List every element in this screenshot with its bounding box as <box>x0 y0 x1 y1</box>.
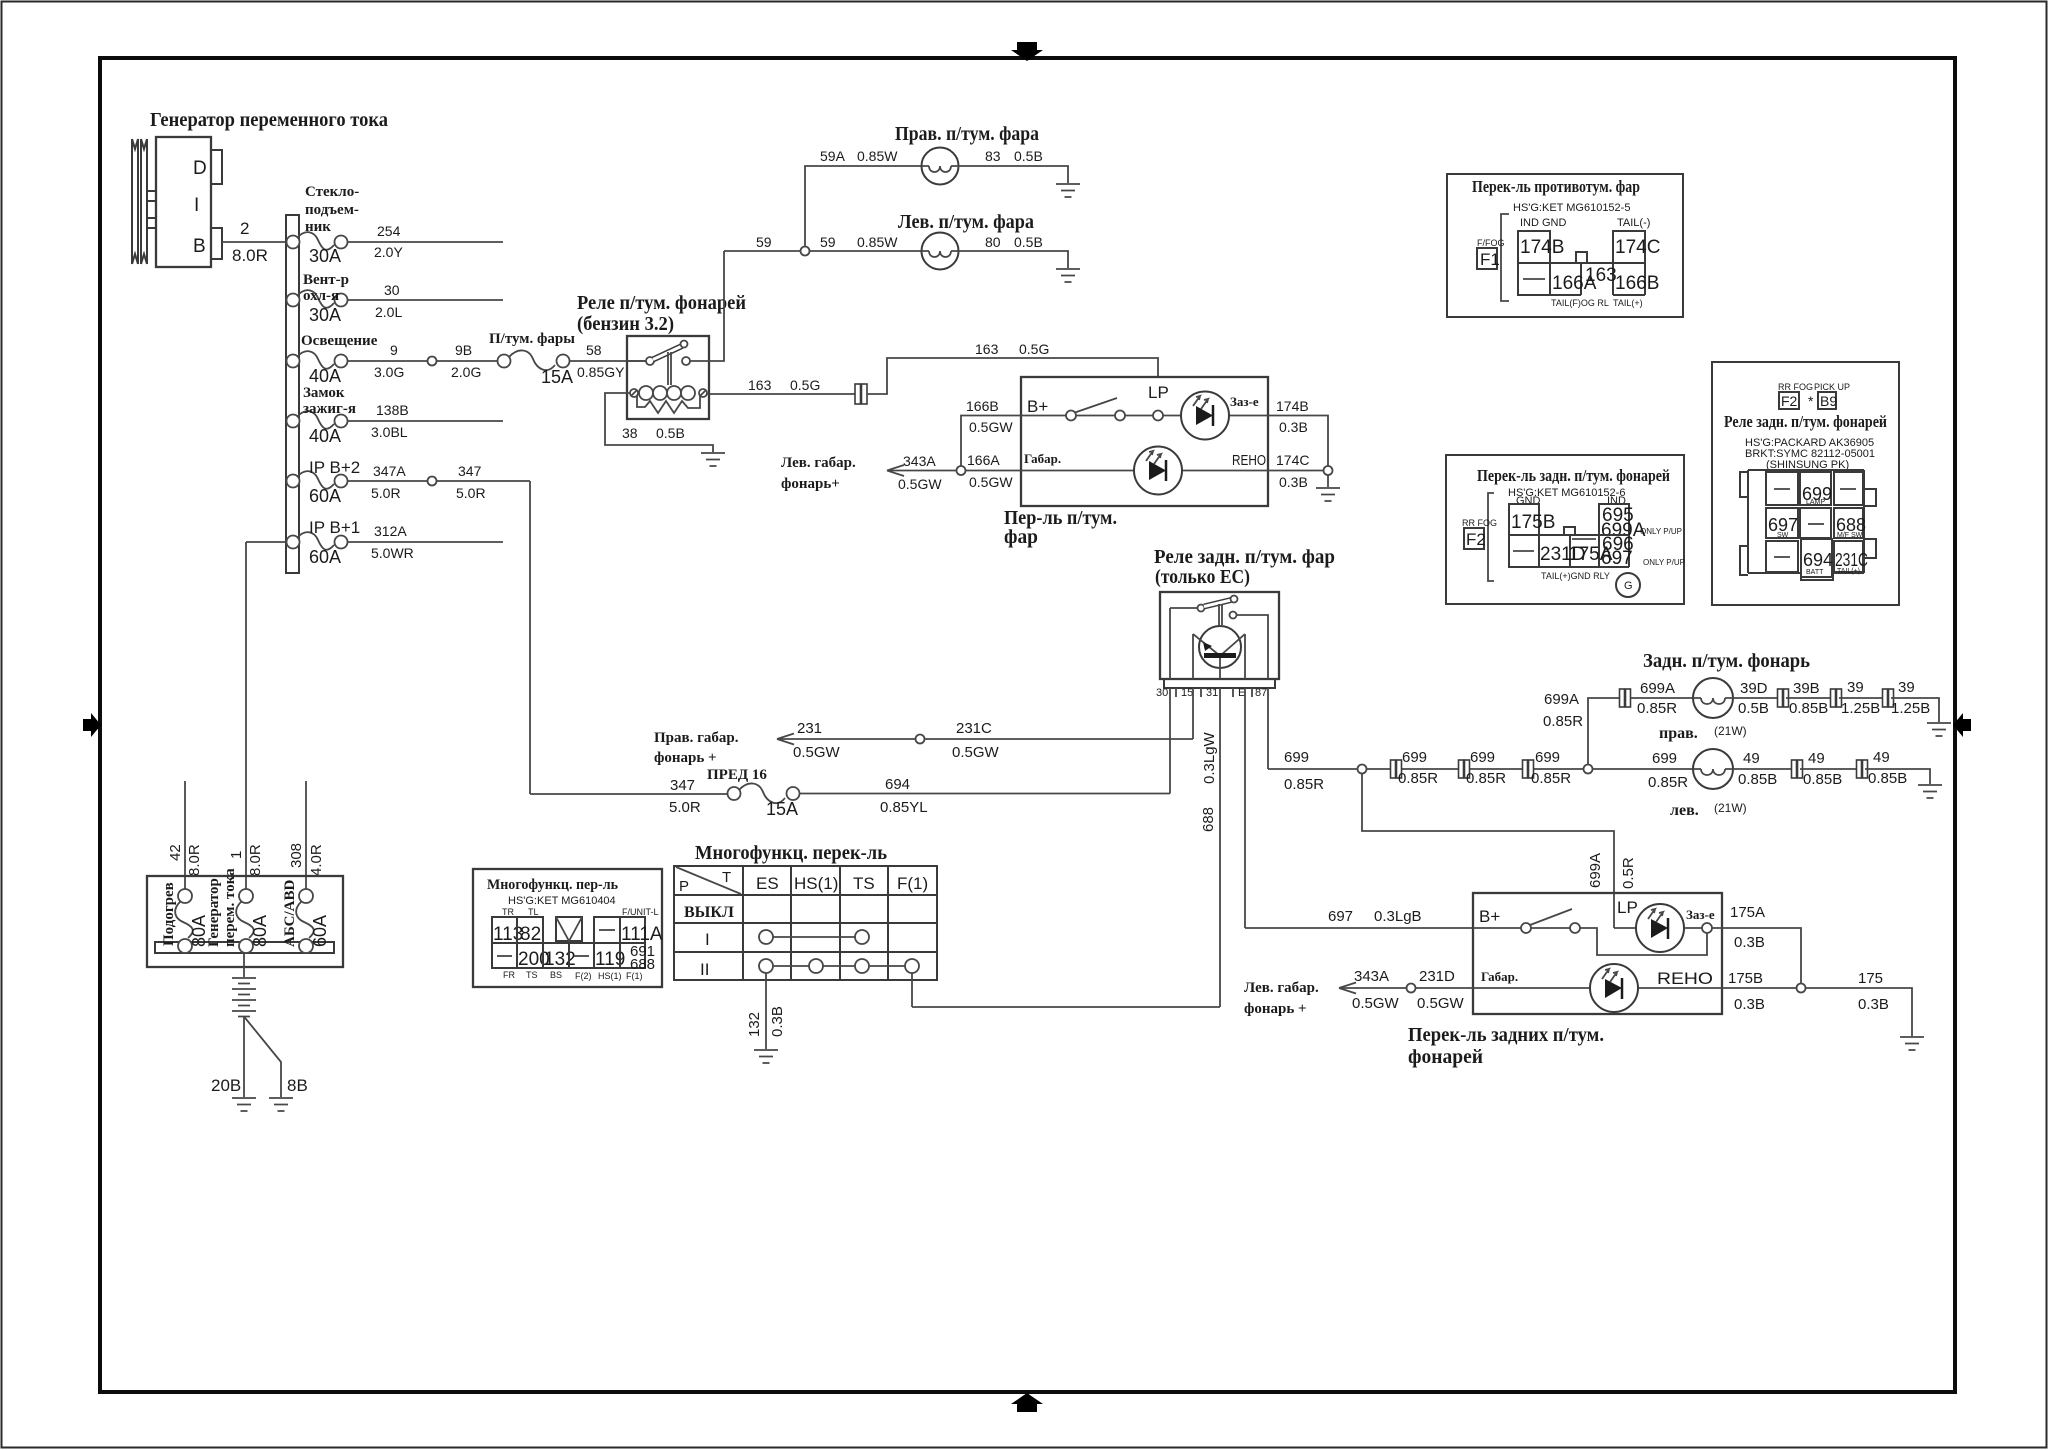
svg-text:2.0Y: 2.0Y <box>374 244 403 260</box>
svg-text:LP: LP <box>1148 383 1169 402</box>
svg-text:31: 31 <box>1206 687 1218 699</box>
wire 699A 0.85R to right rear fog lamp <box>1631 680 1693 717</box>
svg-text:TAIL(F)OG RL: TAIL(F)OG RL <box>1551 298 1609 308</box>
svg-text:699A: 699A <box>1544 691 1579 708</box>
connector F2 pin 175B <box>1509 504 1555 535</box>
svg-text:Заз-е: Заз-е <box>1230 394 1259 409</box>
connector B9 F2 ref box <box>1779 392 1799 409</box>
svg-text:0.85B: 0.85B <box>1789 700 1828 717</box>
svg-text:ONLY P/UP: ONLY P/UP <box>1643 558 1685 567</box>
ground right fog lamp <box>1056 184 1080 197</box>
svg-text:подъем-: подъем- <box>305 202 359 218</box>
svg-text:175A: 175A <box>1730 904 1765 921</box>
svg-text:49: 49 <box>1743 750 1760 767</box>
fuse F-IP B+1 60A <box>287 518 361 567</box>
svg-text:0.5B: 0.5B <box>1738 700 1769 717</box>
svg-text:M/F SW: M/F SW <box>1837 532 1863 539</box>
page link arrow right <box>1953 713 1971 737</box>
ground left rear fog <box>1918 785 1942 798</box>
svg-text:8В: 8В <box>287 1076 308 1095</box>
svg-text:175B: 175B <box>1728 970 1763 987</box>
svg-text:694: 694 <box>885 776 910 793</box>
lower fuse bus bar <box>155 942 334 953</box>
node junction 175A/175B <box>1797 984 1806 993</box>
svg-text:фар: фар <box>1004 526 1038 548</box>
svg-text:0.85B: 0.85B <box>1868 770 1907 787</box>
svg-text:5.0WR: 5.0WR <box>371 545 414 561</box>
svg-text:2.0L: 2.0L <box>375 304 402 320</box>
connector F1 pin 174C <box>1613 231 1660 263</box>
svg-text:163: 163 <box>975 341 999 357</box>
connector F1 box Перек-ль противотум. фар <box>1447 174 1683 317</box>
svg-text:5.0R: 5.0R <box>371 485 401 501</box>
svg-text:TAIL(+): TAIL(+) <box>1837 568 1860 575</box>
wire 39D 0.5B <box>1733 680 1780 717</box>
svg-text:Заз-е: Заз-е <box>1686 907 1715 922</box>
fuse F-Вентилятор охлаждения 30A <box>287 272 350 325</box>
svg-text:Реле п/тум. фонарей: Реле п/тум. фонарей <box>577 292 746 314</box>
switch S1 pin LP <box>1148 383 1169 421</box>
svg-text:F/FOG: F/FOG <box>1477 238 1505 248</box>
relay K1 resistor <box>637 396 700 413</box>
svg-text:163: 163 <box>748 377 772 393</box>
wire pin30 down to 694 <box>1169 688 1171 794</box>
svg-text:39B: 39B <box>1793 680 1820 697</box>
connector B9 cell r3c1 <box>1766 541 1798 572</box>
wire 231D 0.5GW <box>1416 968 1474 1012</box>
svg-text:60А: 60А <box>309 486 341 506</box>
svg-text:фонарь+: фонарь+ <box>781 476 840 492</box>
connector inline 39/39 <box>1883 689 1894 707</box>
svg-text:39: 39 <box>1898 679 1915 696</box>
battery BAT <box>232 953 256 1017</box>
svg-text:59: 59 <box>820 234 836 250</box>
svg-text:111A: 111A <box>621 924 663 945</box>
svg-text:0.5R: 0.5R <box>1620 857 1637 889</box>
connector X1 bottom row cells <box>492 943 655 973</box>
svg-text:9B: 9B <box>455 342 472 358</box>
svg-text:F/UNIT-L: F/UNIT-L <box>622 907 659 917</box>
svg-text:Перек-ль задних п/тум.: Перек-ль задних п/тум. <box>1408 1024 1604 1046</box>
svg-text:TS: TS <box>853 874 875 893</box>
svg-text:ONLY P/UP: ONLY P/UP <box>1640 527 1682 536</box>
wire 175A 0.3B <box>1712 904 1801 984</box>
wire 254 2.0Y <box>348 223 503 260</box>
svg-text:Замок: Замок <box>303 385 345 401</box>
svg-text:15А: 15А <box>766 799 798 819</box>
relay K2 box <box>1160 592 1279 679</box>
svg-text:254: 254 <box>377 223 401 239</box>
wire 175B 0.3B <box>1722 970 1797 1013</box>
svg-text:B+: B+ <box>1479 907 1500 926</box>
svg-text:49: 49 <box>1873 749 1890 766</box>
wire 39 1.25B end <box>1891 679 1939 722</box>
svg-text:Лев. габар.: Лев. габар. <box>781 455 856 471</box>
ground for 174C <box>1327 475 1329 487</box>
wire 49 0.85B second <box>1800 750 1859 788</box>
wire 138B 3.0BL <box>348 402 503 440</box>
svg-text:0.3B: 0.3B <box>1734 934 1765 951</box>
wire 347 vertical run <box>529 481 531 794</box>
svg-text:P: P <box>679 878 689 895</box>
table row I contacts <box>705 930 869 949</box>
svg-text:Лев. габар.: Лев. габар. <box>1244 980 1319 996</box>
wire 163 0.5G riser to switch LP <box>867 341 1158 394</box>
node junction 231/231C <box>916 735 925 744</box>
svg-text:0.85R: 0.85R <box>1637 700 1677 717</box>
generator terminal B <box>211 228 222 259</box>
connector F1 designator <box>1477 238 1505 269</box>
wire 174B 0.3B <box>1268 398 1328 466</box>
fuse bus bar <box>286 215 299 573</box>
connector B9 pin 699 LAMP <box>1800 472 1832 506</box>
svg-text:0.5B: 0.5B <box>1014 148 1043 164</box>
svg-text:АБС/ABD: АБС/ABD <box>282 880 298 947</box>
svg-text:175: 175 <box>1858 970 1883 987</box>
connector F1 key lug <box>1576 252 1587 263</box>
svg-text:60А: 60А <box>309 547 341 567</box>
svg-text:82: 82 <box>520 924 541 945</box>
wire 312A 5.0WR <box>246 523 503 561</box>
svg-text:F(1): F(1) <box>626 971 643 981</box>
wire 231D feed with arrow <box>1339 968 1407 1012</box>
svg-text:1.25B: 1.25B <box>1841 700 1880 717</box>
wire 688 0.3LgW pin31 down <box>1200 688 1220 1007</box>
svg-text:0.3LgB: 0.3LgB <box>1374 908 1422 925</box>
svg-text:IP B+2: IP B+2 <box>309 458 360 477</box>
svg-text:0.5G: 0.5G <box>1019 341 1049 357</box>
svg-text:0.3B: 0.3B <box>1279 474 1308 490</box>
svg-text:Стекло-: Стекло- <box>305 184 359 200</box>
svg-text:лев.: лев. <box>1670 802 1699 819</box>
wire 38 0.5B to ground <box>605 393 713 452</box>
connector B9 header labels <box>1778 382 1850 392</box>
svg-text:Генератор: Генератор <box>206 878 222 947</box>
transistor Q1 in relay K2 <box>1170 608 1245 679</box>
table header labels <box>679 869 928 895</box>
svg-text:132: 132 <box>746 1012 763 1037</box>
svg-text:IND GND: IND GND <box>1520 217 1567 229</box>
wire 83 0.5B <box>959 148 1069 183</box>
connector F2 ground G circle <box>1616 573 1640 597</box>
svg-text:699A: 699A <box>1587 853 1604 888</box>
svg-text:3.0G: 3.0G <box>374 364 404 380</box>
wire 231 0.5GW with arrow <box>777 720 916 761</box>
node junction 166A/166B <box>957 466 966 475</box>
svg-text:9: 9 <box>390 342 398 358</box>
connector B9 B9 ref box <box>1818 392 1837 409</box>
node junction 347A/347 <box>428 477 437 486</box>
svg-text:699: 699 <box>1470 749 1495 766</box>
svg-text:8.0R: 8.0R <box>247 844 264 876</box>
wire 694 0.85YL <box>800 776 1171 816</box>
ground for 175 <box>1900 1037 1924 1050</box>
switch S2 Габар row <box>1473 964 1722 1012</box>
svg-text:RR FOG: RR FOG <box>1778 382 1813 392</box>
svg-text:BATT: BATT <box>1806 569 1824 576</box>
wire 347 5.0R horizontal <box>437 463 531 501</box>
svg-text:0.3LgW: 0.3LgW <box>1201 731 1218 784</box>
connector X1 pin 82 <box>517 917 543 945</box>
connector B9 box Реле задн. п/тум. фонарей <box>1712 362 1899 605</box>
svg-text:F(2): F(2) <box>575 971 592 981</box>
svg-text:697: 697 <box>1601 548 1633 569</box>
svg-text:ES: ES <box>756 874 779 893</box>
svg-text:0.85R: 0.85R <box>1648 774 1688 791</box>
svg-text:688: 688 <box>1200 807 1217 832</box>
svg-text:фонарь +: фонарь + <box>654 750 717 766</box>
svg-text:231D: 231D <box>1419 968 1455 985</box>
svg-text:прав.: прав. <box>1659 725 1698 742</box>
wire 163 0.5G from relay to connector <box>707 377 855 394</box>
svg-text:FR: FR <box>503 970 515 980</box>
svg-text:Подогрев: Подогрев <box>161 882 177 946</box>
relay K2 connector strip <box>1164 679 1275 697</box>
svg-text:138B: 138B <box>376 402 409 418</box>
svg-text:166A: 166A <box>967 452 1000 468</box>
fuse F-Замок зажигания 40A <box>287 385 356 446</box>
svg-text:59: 59 <box>756 234 772 250</box>
wire 699 0.85R from pin 87 <box>1268 749 1358 793</box>
svg-text:IP B+1: IP B+1 <box>309 518 360 537</box>
svg-text:F2: F2 <box>1466 530 1486 549</box>
svg-text:699A: 699A <box>1640 680 1675 697</box>
svg-text:0.3B: 0.3B <box>1279 419 1308 435</box>
relay K2 switch lever <box>1170 596 1268 680</box>
connector F2 pin IND cell <box>1599 504 1646 541</box>
svg-text:699: 699 <box>1652 750 1677 767</box>
svg-text:HS(1): HS(1) <box>598 971 622 981</box>
svg-text:0.5GW: 0.5GW <box>969 419 1013 435</box>
wire 9B 2.0G <box>437 342 498 380</box>
lamp L4 left rear fog 21W <box>1670 749 1747 819</box>
svg-text:LP: LP <box>1617 898 1638 917</box>
svg-text:Вент-р: Вент-р <box>303 272 349 288</box>
svg-text:F1: F1 <box>1480 250 1500 269</box>
connector B9 housing outline <box>1740 470 1876 580</box>
svg-text:HS(1): HS(1) <box>794 874 838 893</box>
svg-text:Перек-ль задн. п/тум. фонарей: Перек-ль задн. п/тум. фонарей <box>1477 466 1670 485</box>
svg-text:0.85GY: 0.85GY <box>577 364 625 380</box>
connector F2 ONLY P/UP labels <box>1640 527 1685 567</box>
svg-text:Генератор переменного тока: Генератор переменного тока <box>150 109 388 131</box>
svg-text:2.0G: 2.0G <box>451 364 481 380</box>
svg-text:231C: 231C <box>1835 550 1868 570</box>
connector F2 bottom cells <box>1509 534 1634 569</box>
wire 42 8.0R stub <box>167 781 203 889</box>
node junction 9/9B <box>428 357 437 366</box>
svg-text:39D: 39D <box>1740 680 1768 697</box>
svg-text:15: 15 <box>1181 687 1193 699</box>
svg-text:зажиг-я: зажиг-я <box>303 401 356 417</box>
svg-text:166B: 166B <box>1615 273 1659 294</box>
wire 166B 0.5GW <box>961 398 1021 466</box>
connector B9 pin 688 M/F SW <box>1834 508 1866 539</box>
wire 347A 5.0R <box>348 463 428 501</box>
svg-text:0.85W: 0.85W <box>857 234 898 250</box>
wire battery to ground 8B <box>244 1017 308 1098</box>
connector B9 cell r1c1 <box>1766 472 1798 505</box>
svg-text:49: 49 <box>1808 750 1825 767</box>
svg-text:0.5GW: 0.5GW <box>793 744 841 761</box>
wire 39 1.25B <box>1839 679 1885 717</box>
svg-text:5.0R: 5.0R <box>456 485 486 501</box>
svg-text:TAIL(-): TAIL(-) <box>1617 217 1650 229</box>
svg-text:Задн. п/тум. фонарь: Задн. п/тум. фонарь <box>1643 650 1810 672</box>
wire 80 0.5B <box>959 234 1069 268</box>
wire 132 0.3B to ground <box>746 973 786 1049</box>
svg-text:0.5GW: 0.5GW <box>952 744 1000 761</box>
connector F2 box Перек-ль задн. п/тум. фонарей <box>1446 455 1684 604</box>
wire 59A 0.85W <box>805 148 922 247</box>
svg-text:фонарей: фонарей <box>1408 1046 1483 1068</box>
switch S1 contacts <box>1021 398 1153 421</box>
svg-text:30А: 30А <box>309 246 341 266</box>
connector B9 pin 694 BATT <box>1801 539 1833 577</box>
wire 231C 0.5GW <box>925 720 1194 761</box>
fuse F-Стеклоподъемник 30A <box>287 184 360 266</box>
connector F1 labels IND GND TAIL(-) <box>1520 217 1650 229</box>
svg-text:T: T <box>722 869 731 886</box>
ground 20B <box>232 1098 256 1111</box>
svg-text:80: 80 <box>985 234 1001 250</box>
wire 688 horizontal to multifunction switch <box>912 1006 1220 1008</box>
wire 308 4.0R stub <box>288 781 325 889</box>
svg-text:Многофункц. перек-ль: Многофункц. перек-ль <box>695 842 887 864</box>
svg-text:163: 163 <box>1585 265 1617 286</box>
svg-text:B: B <box>193 236 206 257</box>
ground 8B <box>269 1098 293 1111</box>
switch S1 Габар row <box>1021 447 1268 495</box>
svg-text:58: 58 <box>586 342 602 358</box>
wire 39B 0.85B <box>1786 680 1833 717</box>
svg-text:(21W): (21W) <box>1714 801 1747 815</box>
switch S2 contacts <box>1473 909 1712 955</box>
svg-text:0.5GW: 0.5GW <box>1417 995 1465 1012</box>
connector X1 key cell <box>556 917 582 941</box>
node junction 699/699A <box>1584 765 1593 774</box>
svg-text:(только ЕС): (только ЕС) <box>1155 566 1250 588</box>
svg-text:113: 113 <box>493 924 523 945</box>
wire 9 3.0G <box>348 342 428 380</box>
connector X1 pin labels top <box>502 907 659 917</box>
svg-text:RR FOG: RR FOG <box>1462 518 1497 528</box>
ground right rear fog <box>1927 723 1951 736</box>
svg-text:40А: 40А <box>309 426 341 446</box>
wire 699 0.85R to left rear fog lamp <box>1593 750 1694 791</box>
wire 2 8.0R from generator B to fuse bus <box>222 241 286 243</box>
svg-text:0.5GW: 0.5GW <box>1352 995 1400 1012</box>
svg-text:ПРЕД 16: ПРЕД 16 <box>707 767 767 783</box>
svg-text:Реле задн. п/тум. фар: Реле задн. п/тум. фар <box>1154 546 1335 568</box>
svg-text:(21W): (21W) <box>1714 724 1747 738</box>
svg-text:0.5B: 0.5B <box>656 425 685 441</box>
svg-text:175B: 175B <box>1511 512 1555 533</box>
node junction 343A/231D <box>1407 984 1416 993</box>
switch S2 pin LP <box>1614 898 1638 928</box>
wire 1 8.0R label <box>228 844 264 876</box>
svg-text:20В: 20В <box>211 1076 241 1095</box>
svg-text:*: * <box>1808 393 1814 409</box>
svg-text:4.0R: 4.0R <box>308 844 325 876</box>
wire 347 5.0R to fuse ПРЕД16 <box>530 777 728 816</box>
label Лев. габар. фонарь + (bottom) <box>1244 980 1319 1017</box>
generator G1 body <box>156 137 211 267</box>
svg-text:174C: 174C <box>1276 452 1309 468</box>
wire 699A 0.85R right chain start <box>1543 691 1619 765</box>
svg-text:II: II <box>700 960 709 979</box>
connector inline 39D/39B <box>1778 689 1789 707</box>
connector X1 pin 111A <box>620 917 663 945</box>
table row II contacts <box>700 959 919 979</box>
connector inline 49 b <box>1857 760 1868 778</box>
svg-text:1: 1 <box>228 851 245 859</box>
relay K1 switch lever <box>627 341 690 386</box>
svg-text:Освещение: Освещение <box>301 333 378 349</box>
svg-text:GND: GND <box>1516 495 1541 507</box>
svg-text:15А: 15А <box>541 367 573 387</box>
svg-text:REHO: REHO <box>1657 969 1713 988</box>
svg-text:Прав. габар.: Прав. габар. <box>654 730 739 746</box>
svg-text:0.85R: 0.85R <box>1543 713 1583 730</box>
svg-text:30А: 30А <box>309 305 341 325</box>
label Прав. габар. фонарь + <box>654 730 739 766</box>
svg-text:38: 38 <box>622 425 638 441</box>
svg-text:0.3B: 0.3B <box>1858 996 1889 1013</box>
svg-text:0.85R: 0.85R <box>1466 770 1506 787</box>
connector X1 pin labels bottom <box>503 970 643 981</box>
label Лев. габар. фонарь+ (left) <box>781 455 856 492</box>
svg-text:Прав. п/тум. фара: Прав. п/тум. фара <box>895 123 1039 145</box>
svg-text:174B: 174B <box>1276 398 1309 414</box>
svg-text:347A: 347A <box>373 463 406 479</box>
svg-text:174C: 174C <box>1615 237 1660 258</box>
wire 1 8.0R vertical to lower fuse box <box>245 542 247 889</box>
svg-text:39: 39 <box>1847 679 1864 696</box>
svg-text:87: 87 <box>1255 687 1267 699</box>
wire 166A 0.5GW <box>887 452 1021 492</box>
connector F1 pin 174B <box>1518 231 1564 263</box>
connector F2 middle line <box>1509 534 1629 536</box>
svg-text:30: 30 <box>1156 687 1168 699</box>
svg-text:0.85R: 0.85R <box>1531 770 1571 787</box>
svg-text:TL: TL <box>528 907 539 917</box>
wire 30 2.0L <box>348 282 503 320</box>
connector F2 key lug <box>1564 527 1575 535</box>
svg-text:G: G <box>1624 580 1633 592</box>
connector F2 bracket <box>1488 493 1494 581</box>
svg-text:174B: 174B <box>1520 237 1564 258</box>
relay K1 coil <box>630 386 707 400</box>
connector B9 pin 231C TAIL(+) <box>1834 541 1868 575</box>
svg-text:Перек-ль противотум. фар: Перек-ль противотум. фар <box>1472 177 1640 196</box>
svg-text:HS'G:KET MG610152-5: HS'G:KET MG610152-5 <box>1513 202 1630 214</box>
wire 49 0.85B end <box>1865 749 1930 787</box>
connector inline 699A <box>1620 689 1631 707</box>
relay K1 box <box>627 336 709 419</box>
svg-text:699: 699 <box>1535 749 1560 766</box>
wire battery to ground 20B <box>211 1017 244 1098</box>
switch S2 Перек-ль задних п/тум. фонарей box <box>1473 893 1722 1014</box>
svg-text:HS'G:KET MG610404: HS'G:KET MG610404 <box>508 895 616 907</box>
svg-text:Реле задн. п/тум. фонарей: Реле задн. п/тум. фонарей <box>1724 412 1887 431</box>
connector F2 labels GND IND <box>1516 495 1626 507</box>
svg-text:0.3B: 0.3B <box>1734 996 1765 1013</box>
connector X1 pin 113 <box>492 917 523 945</box>
node junction 699 <box>1358 765 1367 774</box>
wire pin87 down to 699 <box>1267 688 1269 769</box>
switch S1 Пер-ль п/тум. фар box <box>1021 377 1268 506</box>
